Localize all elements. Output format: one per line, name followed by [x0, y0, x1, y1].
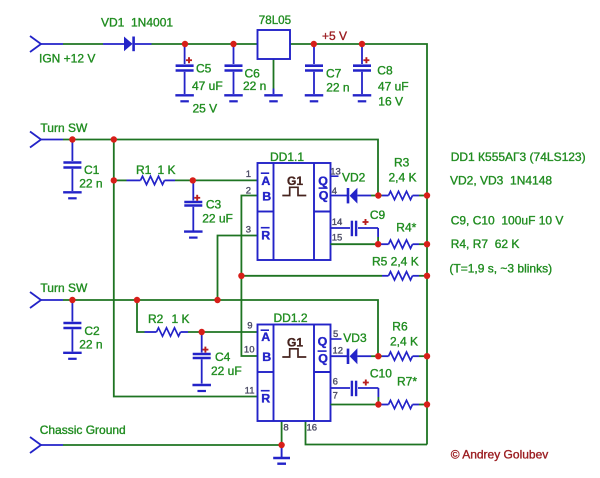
label C3	[206, 198, 222, 212]
svg-text:C2: C2	[84, 324, 100, 338]
label VD1 1N4001	[101, 16, 173, 30]
pin 5 stub DD1.2	[331, 338, 342, 340]
input connector IGN +12V	[30, 36, 63, 52]
label C6	[245, 67, 261, 81]
capacitor C10	[331, 381, 379, 405]
svg-text:15: 15	[332, 233, 343, 244]
label C7 value	[326, 81, 349, 95]
wire Turn SW 1 net to VD2 node	[63, 140, 378, 196]
svg-text:13: 13	[330, 167, 341, 178]
svg-text:2,4 K: 2,4 K	[390, 334, 418, 348]
svg-text:DD1.1: DD1.1	[270, 150, 304, 164]
plus mark C8	[363, 57, 369, 63]
note R4 R7 value	[451, 237, 520, 251]
svg-text:R5 2,4 K: R5 2,4 K	[372, 255, 419, 269]
wire +5V rail	[290, 44, 427, 445]
svg-text:R4, R7 62 K: R4, R7 62 K	[451, 237, 520, 251]
svg-text:(T=1,9 s, ~3 blinks): (T=1,9 s, ~3 blinks)	[449, 262, 552, 276]
labels DD1.1 pins A B R Q	[261, 173, 329, 242]
svg-text:R7*: R7*	[397, 375, 417, 389]
label C4	[215, 350, 231, 364]
svg-text:16: 16	[307, 423, 318, 434]
wire Turn SW 2 net to VD3 node	[63, 300, 378, 356]
junction node 16	[134, 297, 140, 303]
svg-text:Chassic Ground: Chassic Ground	[40, 423, 126, 437]
svg-text:Q: Q	[318, 335, 328, 349]
junction node 5	[69, 136, 75, 142]
svg-text:VD2: VD2	[342, 171, 366, 185]
wire chassis ground rail	[63, 444, 282, 446]
note timing	[449, 262, 552, 276]
junction node 22	[424, 401, 430, 407]
junction node 1	[182, 41, 188, 47]
svg-text:R3: R3	[394, 156, 410, 170]
svg-text:16 V: 16 V	[378, 95, 403, 109]
ground for C4	[192, 385, 211, 391]
wire R2 to C4 node to pin 9	[188, 331, 258, 333]
label G1 of DD1.1	[282, 174, 306, 196]
label R5	[372, 255, 419, 269]
capacitor C5	[176, 44, 194, 94]
wire pin 7 to R7	[331, 404, 379, 406]
wire pin 8 to ground rail	[281, 421, 283, 445]
svg-text:22 uF: 22 uF	[202, 212, 233, 226]
svg-text:DD1 К555АГ3 (74LS123): DD1 К555АГ3 (74LS123)	[451, 150, 586, 164]
label C7	[326, 67, 342, 81]
ground for C7	[305, 95, 324, 101]
diode VD3	[331, 348, 379, 364]
resistor R1	[127, 176, 176, 184]
label C4 value	[211, 364, 242, 378]
svg-text:1 K: 1 K	[158, 163, 176, 177]
resistor R5	[382, 272, 427, 280]
diode VD1	[103, 37, 152, 52]
junction node 11	[375, 241, 381, 247]
svg-text:11: 11	[245, 386, 255, 397]
svg-text:22 n: 22 n	[243, 79, 266, 93]
svg-text:25 V: 25 V	[193, 102, 218, 116]
label R1	[136, 163, 176, 177]
labels DD1.2 pins A B R Q	[261, 330, 329, 406]
svg-text:8: 8	[283, 423, 288, 434]
svg-text:2: 2	[246, 186, 251, 197]
label C5	[196, 62, 212, 76]
svg-text:B: B	[262, 350, 271, 364]
note DD1 part number	[451, 150, 586, 164]
svg-text:22 n: 22 n	[79, 338, 102, 352]
label G1 of DD1.2	[282, 336, 306, 358]
label DD1.1	[270, 150, 304, 164]
svg-text:12: 12	[333, 346, 344, 357]
wire 78L05 ground pin	[273, 59, 275, 89]
label 78L05	[259, 14, 291, 27]
ground for C6	[224, 95, 243, 101]
resistor R3	[378, 191, 427, 199]
label VD3	[343, 331, 367, 345]
label C6 value	[243, 79, 266, 93]
label C1 value	[79, 177, 102, 191]
svg-text:DD1.2: DD1.2	[274, 311, 308, 325]
svg-text:R2: R2	[148, 312, 164, 326]
wire Turn SW 1 branch down to R1 and pin 11	[114, 140, 258, 397]
junction node 21	[375, 401, 381, 407]
ground for 78L05	[264, 89, 283, 102]
svg-text:A: A	[261, 330, 270, 344]
junction node 18	[199, 329, 205, 335]
svg-text:Q: Q	[319, 189, 329, 203]
resistor R4	[378, 240, 427, 248]
ground for C3	[184, 232, 203, 238]
wire pin 3 R-bar to Turn SW 2 net	[218, 236, 258, 301]
svg-text:G1: G1	[287, 336, 303, 350]
plus mark C4	[202, 347, 208, 353]
svg-text:+5 V: +5 V	[322, 29, 347, 43]
junction node 20	[424, 353, 430, 359]
svg-text:47 uF: 47 uF	[192, 79, 223, 93]
label R4	[396, 221, 416, 235]
diode VD2	[331, 188, 379, 204]
svg-text:3: 3	[246, 225, 251, 236]
svg-text:© Andrey Golubev: © Andrey Golubev	[451, 448, 549, 462]
svg-text:Turn SW: Turn SW	[40, 281, 88, 295]
junction node 3	[311, 41, 317, 47]
ground for C1	[63, 192, 82, 198]
svg-text:R6: R6	[392, 320, 408, 334]
svg-text:C7: C7	[326, 67, 342, 81]
svg-text:IGN +12 V: IGN +12 V	[39, 52, 95, 66]
junction node 10	[424, 192, 430, 198]
wire IGN +12V input segment	[63, 43, 103, 45]
svg-text:6: 6	[333, 377, 338, 388]
wire diode VD1 to 78L05 input	[152, 43, 258, 45]
label R7	[397, 375, 417, 389]
label Turn SW 2	[40, 281, 88, 295]
capacitor C4	[193, 332, 211, 384]
note C9 C10 value	[451, 214, 564, 228]
svg-text:C9: C9	[370, 208, 386, 222]
svg-text:10: 10	[244, 345, 255, 356]
junction node 17	[214, 297, 220, 303]
svg-text:R: R	[261, 392, 270, 406]
svg-text:R: R	[261, 229, 270, 243]
label C10	[370, 367, 392, 381]
svg-text:2,4 K: 2,4 K	[389, 171, 417, 185]
svg-text:R1: R1	[136, 163, 152, 177]
junction node 19	[375, 353, 381, 359]
capacitor C3	[184, 180, 202, 230]
label IGN +12 V	[39, 52, 95, 66]
junction node 15	[69, 297, 75, 303]
ground at pin 8	[273, 445, 290, 464]
wire R2 branch	[137, 300, 145, 332]
voltage regulator 78L05	[258, 30, 291, 59]
svg-text:14: 14	[332, 217, 343, 228]
svg-text:C9, C10 100uF 10 V: C9, C10 100uF 10 V	[451, 214, 564, 228]
junction node 12	[424, 241, 430, 247]
input connector Turn SW 2	[30, 292, 63, 308]
pin 13 stub DD1.1	[331, 175, 339, 177]
junction node 2	[230, 41, 236, 47]
ground for C8	[353, 95, 372, 101]
input connector Turn SW 1	[30, 132, 63, 148]
label C1	[84, 163, 100, 177]
input connector Chassis Ground	[30, 437, 63, 453]
svg-text:1: 1	[246, 169, 251, 180]
label Chassic Ground	[40, 423, 126, 437]
svg-text:C8: C8	[377, 64, 393, 78]
resistor R6	[378, 352, 427, 360]
svg-text:Turn SW: Turn SW	[40, 121, 88, 135]
svg-text:A: A	[261, 174, 270, 188]
junction node 7	[111, 177, 117, 183]
plus mark C10	[363, 380, 369, 386]
svg-text:1 K: 1 K	[172, 312, 190, 326]
label R3	[389, 156, 417, 185]
label C3 value	[202, 212, 233, 226]
junction node 23	[278, 442, 284, 448]
label +5 V	[322, 29, 347, 43]
wire B inputs net pin 2 to pin 10 with R5 tap	[241, 196, 257, 357]
svg-text:B: B	[262, 190, 271, 204]
plus mark C5	[186, 57, 192, 63]
capacitor C7	[305, 44, 323, 94]
label DD1.2	[274, 311, 308, 325]
pin numbers DD1.1	[246, 167, 343, 244]
svg-text:C10: C10	[370, 367, 392, 381]
svg-text:C4: C4	[215, 350, 231, 364]
svg-text:47 uF: 47 uF	[378, 80, 409, 94]
wire pin 16 to +5V rail	[306, 421, 428, 445]
capacitor C8	[353, 44, 371, 94]
svg-text:22 uF: 22 uF	[211, 364, 242, 378]
wire R1 left lead joint	[114, 179, 127, 181]
copyright	[451, 448, 549, 462]
note VD2 VD3 part	[450, 174, 552, 188]
wire pin 15 to R4	[331, 243, 379, 245]
svg-text:C3: C3	[206, 198, 222, 212]
capacitor C6	[225, 44, 243, 94]
wire R5 left segment	[241, 275, 382, 277]
svg-text:R4*: R4*	[396, 221, 416, 235]
svg-text:7: 7	[333, 391, 338, 402]
svg-text:VD3: VD3	[343, 331, 367, 345]
svg-text:VD1 1N4001: VD1 1N4001	[101, 16, 173, 30]
pin numbers DD1.2	[244, 321, 343, 434]
label R2	[148, 312, 190, 326]
wire R1 to C3 node to pin 1	[175, 179, 258, 181]
label C5 value	[192, 79, 223, 116]
svg-text:78L05: 78L05	[259, 14, 291, 27]
label C8 value	[378, 80, 409, 109]
capacitor C2	[63, 300, 81, 352]
svg-text:5: 5	[333, 329, 338, 340]
label C8	[377, 64, 393, 78]
plus mark C3	[194, 195, 200, 201]
label R6	[390, 320, 418, 349]
capacitor C9	[331, 221, 379, 245]
op-amp DD1.2 body	[258, 325, 331, 422]
op-amp DD1.1 body	[258, 163, 331, 260]
svg-text:C5: C5	[196, 62, 212, 76]
plus mark C9	[363, 219, 369, 225]
resistor R2	[145, 328, 189, 336]
label VD2	[342, 171, 366, 185]
label C2 value	[79, 338, 102, 352]
label C9	[370, 208, 386, 222]
junction node 9	[375, 192, 381, 198]
svg-text:VD2, VD3 1N4148: VD2, VD3 1N4148	[450, 174, 552, 188]
junction node 13	[238, 273, 244, 279]
resistor R7	[378, 400, 427, 408]
ground for C5	[175, 95, 194, 101]
svg-text:Q: Q	[318, 351, 328, 365]
label C2	[84, 324, 100, 338]
svg-text:22 n: 22 n	[79, 177, 102, 191]
label Turn SW 1	[40, 121, 88, 135]
junction node 6	[111, 136, 117, 142]
ground for C2	[63, 353, 82, 359]
svg-text:Q: Q	[318, 174, 328, 188]
junction node 14	[424, 273, 430, 279]
junction node 4	[359, 41, 365, 47]
svg-text:22 n: 22 n	[326, 81, 349, 95]
svg-text:9: 9	[247, 321, 252, 332]
capacitor C1	[63, 140, 81, 192]
junction node 8	[190, 177, 196, 183]
svg-text:G1: G1	[287, 174, 303, 188]
svg-text:C1: C1	[84, 163, 100, 177]
